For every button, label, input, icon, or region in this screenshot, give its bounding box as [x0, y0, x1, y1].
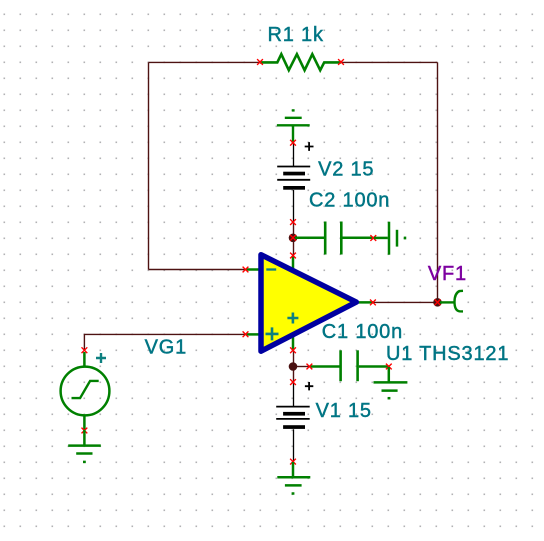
- node junction V+ rail: [289, 234, 298, 243]
- svg-text:VF1: VF1: [428, 263, 467, 285]
- svg-text:R1 1k: R1 1k: [268, 24, 324, 46]
- wire to inverting input: [149, 269, 246, 271]
- wire op-amp output to node VF1: [373, 301, 438, 303]
- op-amp U1 triangle: [261, 255, 356, 352]
- wire node to op-amp V+ pin: [293, 238, 295, 256]
- node junction output VF1: [433, 298, 442, 307]
- wire left vertical feedback: [148, 62, 150, 269]
- wire V2 bottom terminal to node: [293, 222, 295, 238]
- voltage source V1: [276, 379, 313, 464]
- ground (below V1): [277, 462, 310, 494]
- svg-text:V1 15: V1 15: [316, 400, 372, 422]
- wire VG1 to non-inverting input: [84, 334, 245, 350]
- wire top horizontal left segment: [149, 61, 261, 63]
- C1 terminal markers: [307, 364, 313, 370]
- capacitor C1: [311, 350, 389, 381]
- svg-text:C1 100n: C1 100n: [322, 321, 403, 343]
- voltage probe VF1: [440, 291, 463, 312]
- VG1 terminal markers: [82, 347, 88, 353]
- op-amp center plus mark: [287, 313, 298, 324]
- svg-text:VG1: VG1: [145, 337, 187, 359]
- wire top horizontal right segment: [341, 61, 438, 63]
- ground (below C1 right terminal): [374, 367, 408, 398]
- svg-text:V2 15: V2 15: [318, 159, 374, 181]
- node junction V- rail: [289, 362, 298, 371]
- ground (right of C2, rotated 90): [374, 222, 405, 255]
- R1 terminal markers: [257, 59, 263, 65]
- wire node to V1 top terminal: [293, 367, 295, 383]
- wire op-amp V- pin to node: [293, 350, 295, 366]
- ground (below VG1): [68, 430, 101, 462]
- VF1 probe terminal marker: [435, 299, 441, 305]
- capacitor C2: [295, 222, 373, 255]
- svg-text:U1 THS3121: U1 THS3121: [386, 343, 509, 365]
- wire node to C1 left terminal: [294, 366, 310, 368]
- voltage generator VG1: [61, 352, 110, 430]
- voltage source V2: [277, 140, 313, 225]
- wire right vertical feedback: [437, 62, 439, 302]
- VG1 plus polarity mark: [96, 353, 106, 363]
- resistor R1: [260, 54, 341, 70]
- op-amp non-inverting input mark: [266, 327, 279, 340]
- C2 terminal markers: [290, 235, 296, 241]
- op-amp inverting input mark: [266, 268, 276, 270]
- op-amp U1 pin terminal markers: [243, 267, 249, 273]
- svg-text:C2 100n: C2 100n: [309, 189, 390, 211]
- ground (top, above V2, flipped): [277, 110, 310, 143]
- op-amp U1 input/output/power pins: [246, 256, 373, 350]
